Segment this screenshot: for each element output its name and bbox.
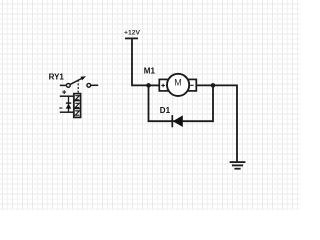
- relay RY1 switch left stub: [60, 84, 67, 86]
- node +12V supply bar: [125, 37, 138, 39]
- node A junction dot: [146, 83, 151, 88]
- relay RY1 flyback diode cathode bar: [66, 102, 71, 104]
- relay RY1 flyback diode triangle: [66, 104, 72, 109]
- svg-text:M1: M1: [144, 66, 156, 75]
- relay RY1 actuator dashed link: [77, 80, 79, 94]
- wire node A to motor + terminal: [149, 84, 160, 86]
- relay RY1 coil top stub: [60, 95, 74, 97]
- relay RY1 switch right stub: [91, 84, 98, 86]
- diode D1 cathode bar: [171, 115, 173, 127]
- relay RY1 switch arrowhead: [81, 76, 87, 80]
- svg-text:RY1: RY1: [49, 73, 65, 82]
- motor M1 body circle: [167, 74, 189, 96]
- motor M1 right terminal box: [188, 79, 196, 91]
- svg-text:D1: D1: [160, 106, 171, 115]
- wire from +12V down and right to node A: [132, 38, 149, 85]
- wire node A down, right along diode row, up to node B: [149, 85, 214, 121]
- svg-text:M: M: [174, 77, 182, 87]
- relay RY1 coil bottom stub: [60, 111, 74, 113]
- ground: [230, 162, 246, 169]
- svg-text:+12V: +12V: [124, 30, 141, 37]
- relay RY1 coil plus label: [62, 90, 66, 94]
- motor M1 minus sign: [190, 84, 193, 86]
- node B junction dot: [211, 83, 216, 88]
- wire motor - terminal to right corner: [196, 85, 237, 161]
- relay RY1 coil box: [74, 94, 81, 118]
- diode D1 triangle: [173, 115, 183, 127]
- relay RY1 coil windings: [75, 101, 81, 109]
- relay RY1 switch arm: [70, 78, 84, 85]
- motor M1 left terminal box: [159, 79, 168, 91]
- relay RY1 switch left contact circle: [66, 84, 70, 88]
- relay RY1 switch right contact circle: [87, 83, 91, 87]
- relay RY1 flyback diode branch wire: [68, 96, 70, 112]
- motor M1 plus sign: [161, 84, 165, 88]
- relay RY1 coil minus label: [59, 107, 62, 109]
